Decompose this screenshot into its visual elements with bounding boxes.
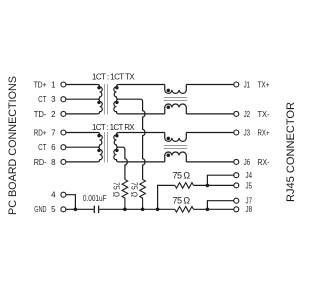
wire T1 secondary center tap to R2 with hops bbox=[119, 99, 145, 179]
transformer T2 primary polarity dots bbox=[97, 134, 100, 137]
pin J8 label bbox=[246, 205, 253, 214]
transformer T1 primary winding bbox=[97, 85, 102, 114]
resistor R4 75 ohm label bbox=[173, 195, 191, 205]
pin J4 terminal circle bbox=[234, 173, 239, 178]
pin 7 RD+ label bbox=[34, 128, 56, 137]
wire choke L2 to J6 bbox=[186, 161, 234, 163]
wire pin2 to T1 primary bottom bbox=[66, 113, 98, 115]
pin 7 terminal circle bbox=[61, 130, 66, 135]
junction J4/J5 bbox=[206, 184, 210, 188]
svg-text:RX+: RX+ bbox=[258, 128, 270, 137]
resistor R3 75 ohm horizontal zigzag bbox=[175, 183, 194, 189]
ground rail wire R4 to J8 bbox=[194, 208, 234, 210]
svg-text:75 Ω: 75 Ω bbox=[173, 171, 191, 181]
ground rail wire pin5 to capacitor bbox=[66, 208, 94, 210]
svg-text:5: 5 bbox=[51, 205, 56, 214]
pin J4 label bbox=[246, 171, 253, 180]
svg-text:PC BOARD CONNECTIONS: PC BOARD CONNECTIONS bbox=[7, 76, 19, 215]
transformer T2 ratio label 1CT:1CT RX bbox=[92, 123, 135, 132]
junction pin4/ground rail bbox=[74, 208, 78, 212]
svg-text:TX-: TX- bbox=[258, 110, 270, 119]
svg-text:TD-: TD- bbox=[34, 110, 47, 119]
wire T2 secondary bottom to choke L2 bbox=[119, 161, 165, 163]
pin 4 label bbox=[51, 191, 56, 200]
choke L1 winding A polarity dot bbox=[167, 89, 171, 93]
svg-text:RD+: RD+ bbox=[34, 128, 47, 137]
pin 1 TD+ label bbox=[34, 80, 56, 89]
wire junction up to J4 bbox=[207, 175, 233, 185]
choke L2 winding B bbox=[165, 152, 187, 162]
wire T2 secondary center tap to R1 with hop bbox=[119, 147, 128, 179]
pin J6 terminal circle bbox=[234, 159, 239, 164]
pin J3 terminal circle bbox=[234, 130, 239, 135]
side label: RJ45 CONNECTOR bbox=[285, 102, 297, 202]
pin 8 terminal circle bbox=[61, 159, 66, 164]
wire pin7 to T2 primary top bbox=[66, 132, 98, 134]
svg-text:1CT : 1CT RX: 1CT : 1CT RX bbox=[92, 123, 135, 132]
wire pin3 to T1 primary center tap bbox=[66, 98, 98, 100]
choke L1 winding B bbox=[165, 104, 187, 114]
svg-text:75 Ω: 75 Ω bbox=[112, 182, 121, 197]
wire choke L1 to J1 bbox=[186, 84, 234, 86]
svg-text:RD-: RD- bbox=[34, 158, 47, 167]
wire pin1 to T1 primary top bbox=[66, 84, 98, 86]
junction R1/ground rail bbox=[123, 208, 127, 212]
svg-text:CT: CT bbox=[38, 143, 46, 152]
pin J7 label bbox=[246, 197, 253, 206]
pin 6 CT label bbox=[38, 143, 56, 152]
svg-text:0.001uF: 0.001uF bbox=[83, 194, 107, 203]
svg-text:J8: J8 bbox=[246, 205, 253, 214]
transformer T1 secondary polarity dots bbox=[115, 86, 118, 89]
transformer T1 secondary winding bbox=[114, 85, 119, 114]
svg-text:CT: CT bbox=[38, 95, 46, 104]
svg-text:1: 1 bbox=[51, 80, 56, 89]
transformer T1 ratio label 1CT:1CT TX bbox=[92, 72, 135, 81]
pin J6 RX- label bbox=[244, 158, 270, 167]
wire R3 to J4/J5 junction bbox=[194, 184, 234, 186]
pin 8 RD- label bbox=[34, 158, 56, 167]
resistor R1 75 ohm vertical zigzag bbox=[122, 180, 128, 210]
svg-text:6: 6 bbox=[51, 143, 56, 152]
pin 4 terminal circle bbox=[61, 192, 66, 197]
choke L1 winding B polarity dot bbox=[167, 105, 171, 109]
side label: PC BOARD CONNECTIONS bbox=[7, 76, 19, 215]
capacitor C1 plates bbox=[94, 206, 98, 213]
pin 2 TD- label bbox=[34, 110, 56, 119]
choke L2 winding A bbox=[165, 133, 187, 142]
wire choke L2 to J3 bbox=[186, 132, 234, 134]
pin J2 TX- label bbox=[244, 110, 270, 119]
pin J7 terminal circle bbox=[234, 198, 239, 203]
svg-text:RX-: RX- bbox=[258, 158, 270, 167]
pin J5 terminal circle bbox=[234, 183, 239, 188]
svg-text:4: 4 bbox=[51, 191, 56, 200]
pin 3 CT label bbox=[38, 95, 56, 104]
pin J1 TX+ label bbox=[244, 80, 270, 89]
pin 5 GND label bbox=[34, 205, 56, 214]
junction J7/J8 bbox=[206, 208, 210, 212]
transformer T1 primary polarity dots bbox=[97, 86, 100, 89]
resistor R3 75 ohm label bbox=[173, 171, 191, 181]
svg-text:7: 7 bbox=[51, 128, 56, 137]
transformer T1 core bbox=[105, 84, 108, 115]
resistor R2 75 ohm vertical label bbox=[130, 182, 139, 197]
choke L2 core bbox=[164, 146, 187, 149]
svg-text:J4: J4 bbox=[246, 171, 253, 180]
wire pin6 to T2 primary center tap bbox=[66, 146, 98, 148]
wire pin8 to T2 primary bottom bbox=[66, 161, 98, 163]
wire T1 secondary top to choke L1 bbox=[119, 84, 165, 86]
transformer T2 core bbox=[105, 132, 108, 163]
svg-text:3: 3 bbox=[51, 95, 56, 104]
svg-text:2: 2 bbox=[51, 110, 56, 119]
pin J3 RX+ label bbox=[244, 128, 270, 137]
pin J8 terminal circle bbox=[234, 207, 239, 212]
choke L1 winding A bbox=[165, 85, 187, 94]
transformer T2 secondary polarity dots bbox=[115, 134, 118, 137]
pin J5 label bbox=[246, 181, 253, 190]
svg-text:1CT : 1CT TX: 1CT : 1CT TX bbox=[92, 72, 135, 81]
junction ground rail to R3 branch bbox=[156, 208, 160, 212]
choke L2 winding A polarity dot bbox=[167, 137, 171, 141]
pin 6 terminal circle bbox=[61, 145, 66, 150]
svg-text:TX+: TX+ bbox=[258, 80, 270, 89]
choke L1 core bbox=[164, 98, 187, 101]
transformer T2 secondary winding bbox=[114, 133, 119, 162]
svg-text:RJ45 CONNECTOR: RJ45 CONNECTOR bbox=[285, 102, 297, 202]
junction R2/ground rail bbox=[141, 208, 145, 212]
capacitor C1 0.001uF label bbox=[83, 194, 107, 203]
wire pin4 down to ground rail bbox=[66, 195, 76, 210]
ground rail wire capacitor to R1 bbox=[99, 208, 175, 210]
svg-text:GND: GND bbox=[34, 205, 46, 214]
pin J1 terminal circle bbox=[234, 82, 239, 87]
resistor R4 75 ohm horizontal zigzag bbox=[175, 207, 194, 213]
svg-text:J1: J1 bbox=[244, 80, 251, 89]
svg-text:TD+: TD+ bbox=[34, 80, 47, 89]
wire T2 secondary top to choke L2 bbox=[119, 132, 165, 134]
resistor R2 75 ohm vertical zigzag bbox=[140, 180, 146, 210]
pin 5 terminal circle bbox=[61, 207, 66, 212]
svg-text:J3: J3 bbox=[244, 128, 251, 137]
pin J2 terminal circle bbox=[234, 111, 239, 116]
resistor R1 75 ohm vertical label bbox=[112, 182, 121, 197]
svg-text:J6: J6 bbox=[244, 158, 251, 167]
wire T1 secondary bottom to choke L1 bbox=[119, 113, 165, 115]
wire choke L1 to J2 bbox=[186, 113, 234, 115]
svg-text:75 Ω: 75 Ω bbox=[130, 182, 139, 197]
choke L2 winding B polarity dot bbox=[167, 153, 171, 157]
svg-text:J2: J2 bbox=[244, 110, 251, 119]
svg-text:8: 8 bbox=[51, 158, 56, 167]
transformer T2 primary winding bbox=[97, 133, 102, 162]
wire ground rail up to R3 bbox=[158, 185, 175, 209]
svg-text:J5: J5 bbox=[246, 181, 253, 190]
pin 1 terminal circle bbox=[61, 82, 66, 87]
pin 3 terminal circle bbox=[61, 97, 66, 102]
wire junction up to J7 bbox=[207, 201, 233, 210]
pin 2 terminal circle bbox=[61, 111, 66, 116]
svg-text:75 Ω: 75 Ω bbox=[173, 195, 191, 205]
